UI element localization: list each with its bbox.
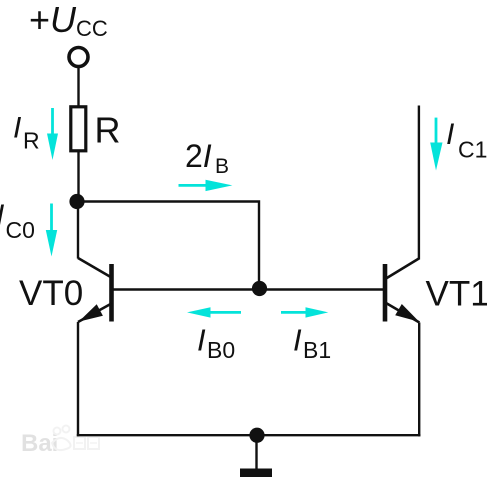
node G junction <box>249 428 264 443</box>
wire VT0 collector from node A <box>77 202 79 259</box>
wire VT1 collector <box>418 106 420 260</box>
svg-text:B0: B0 <box>207 337 235 363</box>
watermark <box>21 426 99 458</box>
wire ground rail <box>77 434 421 436</box>
svg-text:C0: C0 <box>6 217 35 243</box>
svg-text:I: I <box>446 118 454 151</box>
node B junction <box>252 281 267 296</box>
wire node A to corner <box>77 202 259 289</box>
current arrow IB1 <box>281 307 328 317</box>
resistor R <box>71 107 86 151</box>
ground <box>240 442 272 477</box>
current arrow IC0 <box>46 204 57 257</box>
wire VT0 emitter <box>77 322 79 436</box>
current arrow IC1 <box>430 118 442 171</box>
svg-text:I: I <box>197 323 206 358</box>
svg-text:B1: B1 <box>303 337 331 363</box>
svg-text:I: I <box>293 323 302 358</box>
wire terminal to resistor <box>77 67 79 106</box>
node A junction <box>69 194 84 209</box>
current arrow 2IB <box>179 180 233 191</box>
wire base rail VT0 to VT1 <box>114 288 384 290</box>
current arrow IR <box>47 108 58 160</box>
svg-text:I: I <box>0 199 4 232</box>
svg-text:R: R <box>23 128 40 154</box>
svg-text:R: R <box>95 110 121 151</box>
svg-text:C1: C1 <box>458 137 487 163</box>
svg-text:B: B <box>215 155 229 178</box>
wire resistor to node A <box>77 152 79 202</box>
svg-text:VT0: VT0 <box>19 274 83 313</box>
svg-text:I: I <box>13 112 21 145</box>
svg-text:2I: 2I <box>185 138 212 174</box>
svg-text:+UCC: +UCC <box>29 0 108 41</box>
transistor VT1 <box>385 259 419 323</box>
current arrow IB0 <box>187 307 241 317</box>
terminal +Ucc <box>69 48 88 67</box>
wire VT1 emitter <box>418 323 420 437</box>
svg-text:VT1: VT1 <box>426 275 487 314</box>
transistor VT0 <box>78 258 112 322</box>
